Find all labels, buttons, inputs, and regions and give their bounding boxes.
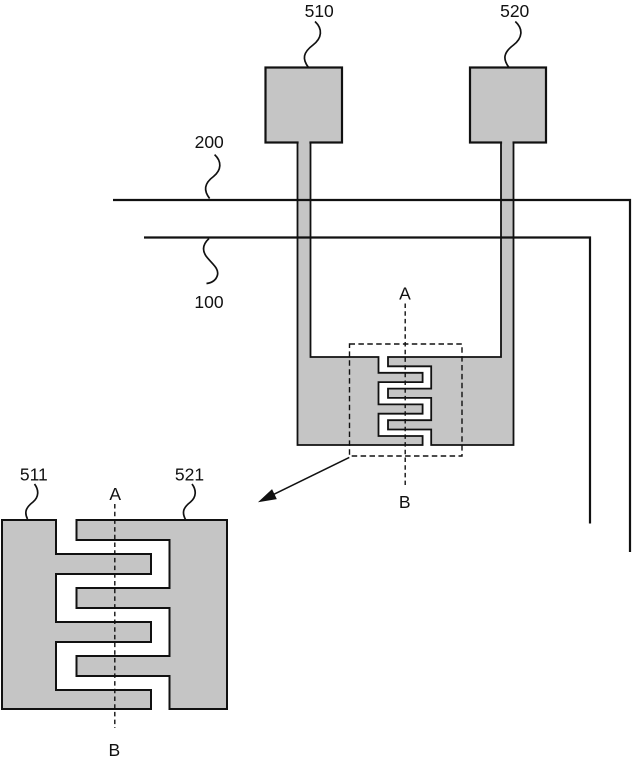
- leader squiggle 510: [304, 22, 320, 68]
- svg-text:100: 100: [194, 292, 223, 312]
- svg-text:200: 200: [195, 132, 224, 152]
- detail-area dashed rectangle: [350, 344, 463, 456]
- svg-text:520: 520: [500, 1, 529, 21]
- electrode 510 comb (left electrode of sensor, stem + fingers): [298, 140, 423, 445]
- arrowhead: [260, 490, 277, 502]
- pad 510 (top-left square): [266, 68, 343, 143]
- svg-text:510: 510: [305, 1, 334, 21]
- section line A-B (sensor, dashed): [404, 304, 406, 486]
- leader squiggle 520: [505, 22, 521, 68]
- stem opening of pad 520 (erase border across stem): [502, 141, 512, 146]
- svg-text:A: A: [109, 484, 121, 504]
- svg-text:A: A: [399, 284, 411, 304]
- stem opening of pad 510 (erase border across stem): [299, 141, 310, 146]
- detail electrode 511 (left comb, enlarged view): [2, 520, 151, 709]
- svg-text:B: B: [109, 740, 121, 760]
- detail electrode 521 (right comb, enlarged view): [77, 520, 228, 709]
- wire 100 (substrate outline, lower): [144, 238, 590, 524]
- pad 520 (top-right square): [470, 68, 546, 143]
- wire 200 (substrate outline, upper): [113, 200, 630, 552]
- svg-text:B: B: [399, 492, 411, 512]
- section line A-B (detail, dashed): [114, 504, 116, 728]
- leader squiggle 521: [183, 484, 195, 520]
- leader squiggle 100: [204, 239, 218, 284]
- svg-text:511: 511: [20, 465, 48, 485]
- electrode 520 comb (right electrode of sensor, stem + fingers): [388, 140, 514, 445]
- leader squiggle 511: [26, 484, 38, 519]
- enlargement arrow: [268, 457, 349, 497]
- leader squiggle 200: [206, 155, 220, 199]
- svg-text:521: 521: [175, 465, 204, 485]
